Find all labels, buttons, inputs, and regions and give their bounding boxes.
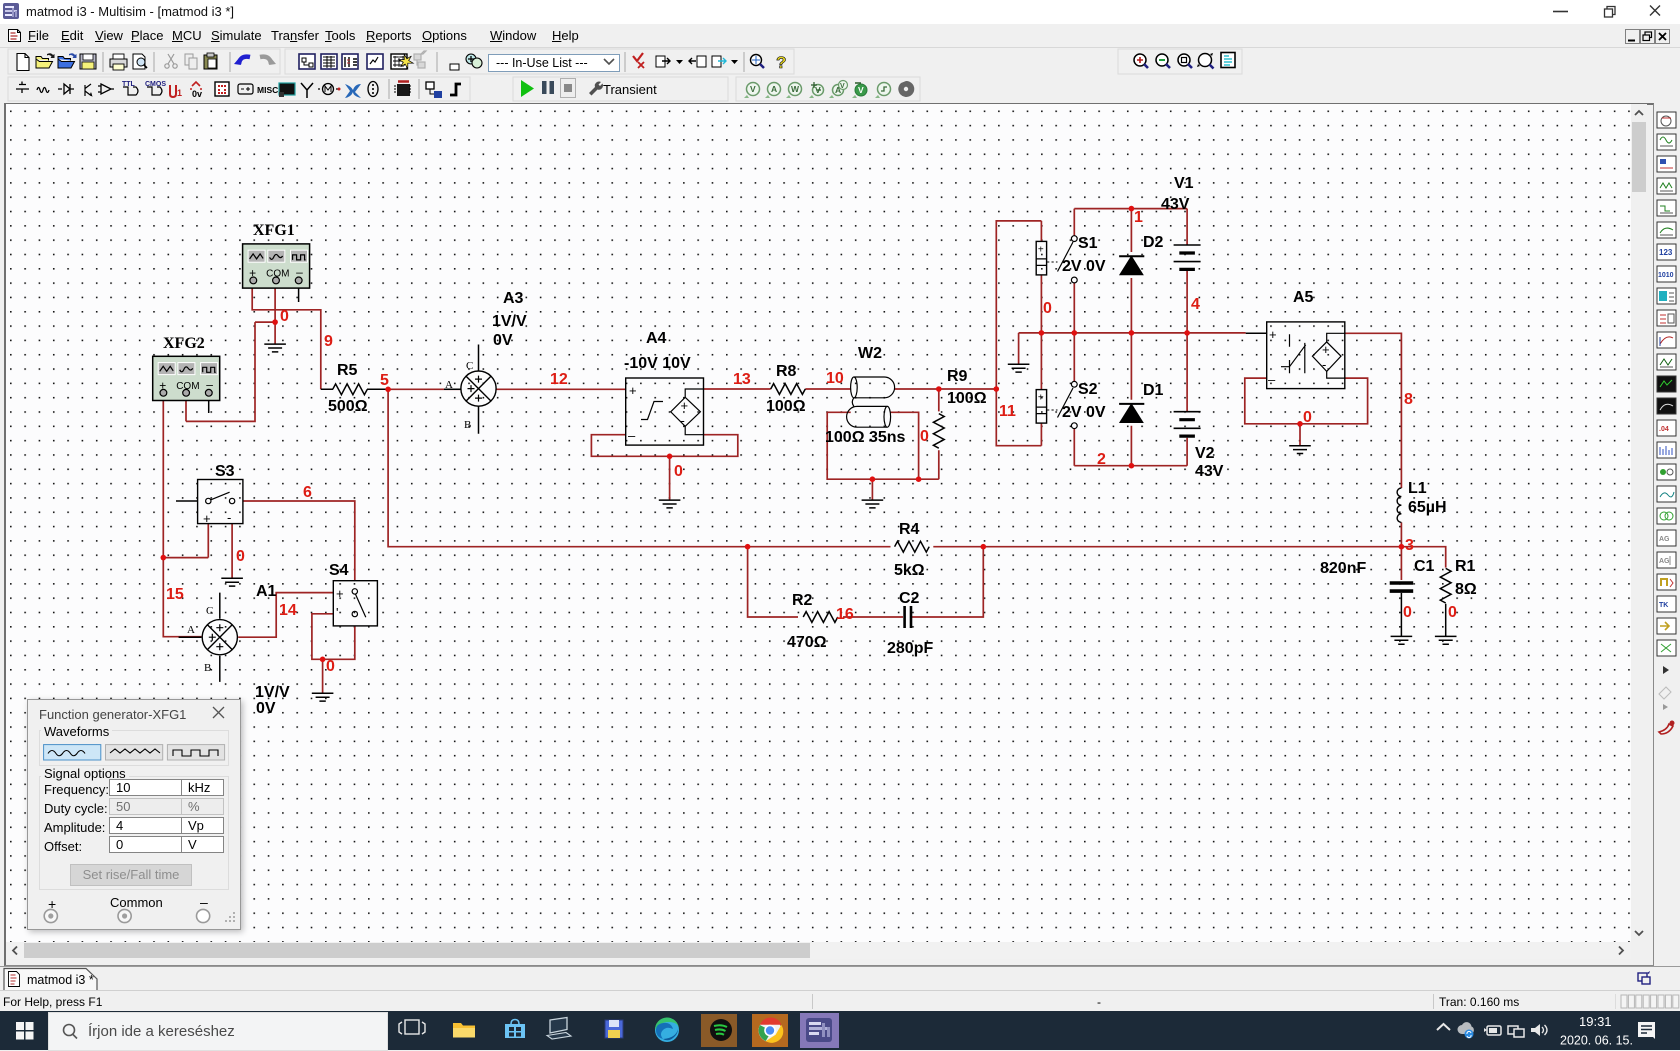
place source — [16, 82, 29, 94]
svg-text:W: W — [791, 84, 800, 94]
svg-text:4: 4 — [1191, 296, 1200, 313]
svg-text:R8: R8 — [776, 363, 797, 380]
wire A3 out to A4 in — [496, 388, 626, 390]
floppy save icon — [605, 1020, 623, 1038]
wire S3 net6 to S4 — [243, 501, 355, 581]
svg-text:43V: 43V — [1195, 463, 1224, 480]
svg-text:V1: V1 — [1174, 175, 1194, 192]
svg-text:B: B — [204, 662, 211, 674]
svg-text:V: V — [858, 85, 864, 95]
wire W2 to R9 node10 — [895, 388, 997, 390]
wire A1 out to S4 — [238, 593, 333, 638]
connector — [368, 82, 378, 97]
wire D2 — [1130, 209, 1132, 333]
wire node5 down and along bottom to R4 C1 R1 — [388, 389, 1446, 567]
svg-text:-: - — [681, 413, 685, 428]
wire node2 horizontal — [1074, 465, 1187, 467]
svg-text:0V: 0V — [493, 332, 513, 349]
junction S4 ground node — [320, 657, 326, 663]
svg-text:R5: R5 — [337, 362, 358, 379]
svg-text:AG: AG — [1659, 536, 1670, 543]
W2 symbol — [851, 377, 858, 398]
junction S1 coil / node 0 — [1039, 330, 1045, 336]
XFG2 minus stub — [208, 401, 210, 413]
wire node1 horizontal — [1074, 208, 1187, 210]
ground (C1 node 0) — [1391, 636, 1413, 644]
wire V1 — [1186, 209, 1188, 333]
svg-text:–: – — [628, 428, 636, 443]
svg-text:9: 9 — [324, 333, 333, 350]
junction node 15 — [161, 555, 167, 561]
svg-text:2V 0V: 2V 0V — [1062, 404, 1106, 421]
C1 bottom lead — [1400, 593, 1402, 637]
svg-text:470Ω: 470Ω — [787, 634, 827, 651]
motor — [318, 84, 338, 95]
svg-text:XFG2: XFG2 — [163, 335, 205, 352]
multiplier A1 — [202, 620, 237, 655]
wrench + Transient — [589, 82, 603, 96]
svg-text:+: + — [681, 398, 689, 413]
svg-text:W2: W2 — [858, 345, 882, 362]
wire XFG1 com gnd stub — [274, 322, 276, 344]
wire node15 to S3 plus — [163, 524, 208, 558]
svg-text:1V/V: 1V/V — [492, 313, 527, 330]
svg-text:5kΩ: 5kΩ — [894, 562, 925, 579]
junction S1/S2 switch — [1072, 330, 1078, 336]
probes — [744, 81, 914, 99]
svg-text:0V: 0V — [256, 700, 276, 717]
junction node 5 — [385, 387, 391, 393]
svg-text:3: 3 — [1405, 537, 1414, 554]
svg-text:0: 0 — [236, 548, 245, 565]
svg-text:16: 16 — [836, 606, 854, 623]
XFG1 minus stub — [298, 288, 300, 302]
svg-text:?: ? — [776, 53, 786, 72]
svg-text:1V/V: 1V/V — [255, 684, 290, 701]
svg-text:S1: S1 — [1078, 235, 1098, 252]
junction node 10/R9 — [936, 386, 942, 392]
svg-text:+: + — [1269, 327, 1277, 342]
open blue — [58, 53, 77, 68]
ground (R1 node 0) — [1435, 636, 1457, 644]
svg-text:0: 0 — [1043, 300, 1052, 317]
junction node 4 / V1 V2 — [1184, 330, 1190, 336]
svg-text:+: + — [1322, 342, 1330, 357]
R1 bottom lead — [1445, 604, 1447, 637]
svg-text:C: C — [466, 360, 473, 372]
D2 — [1119, 255, 1144, 257]
svg-text:15: 15 — [166, 586, 184, 603]
misc digital red — [170, 85, 176, 97]
battery V1 — [1174, 245, 1201, 269]
wire W2 bottom left loop — [827, 412, 939, 479]
wire S3 minus gnd stub — [231, 524, 233, 579]
wire D1 — [1130, 333, 1132, 466]
wire C1 top lead — [1400, 547, 1402, 580]
junction A5 feedback ground — [1297, 421, 1303, 427]
svg-text:2V 0V: 2V 0V — [1062, 258, 1106, 275]
zoom section — [1134, 53, 1235, 69]
svg-text:1: 1 — [1134, 209, 1143, 226]
preview — [133, 54, 147, 69]
ground (S4 node 0) — [312, 693, 334, 701]
junction R4/R2 left — [745, 544, 751, 550]
svg-text:8: 8 — [1404, 391, 1413, 408]
svg-text:19:31: 19:31 — [1579, 1014, 1612, 1029]
svg-text:100Ω: 100Ω — [947, 390, 987, 407]
sim buttons — [521, 80, 534, 97]
C2 bars — [905, 606, 911, 628]
svg-text:65µH: 65µH — [1408, 499, 1447, 516]
svg-text:0: 0 — [280, 308, 289, 325]
svg-text:5: 5 — [380, 372, 389, 389]
svg-text:C2: C2 — [899, 590, 920, 607]
ground (A5 node 0) — [1289, 446, 1311, 454]
hier — [426, 82, 442, 98]
wire S4 gnd stub — [322, 659, 324, 693]
wire R2 C2 branch — [748, 547, 984, 617]
store — [505, 1020, 525, 1039]
In-Use List combo — [489, 55, 620, 72]
svg-text:100Ω 35ns: 100Ω 35ns — [825, 429, 906, 446]
battery V2 — [1174, 412, 1201, 436]
svg-text:0v: 0v — [192, 89, 202, 99]
A5 box — [1267, 322, 1345, 389]
svg-text:–: – — [1268, 372, 1276, 387]
undo redo — [239, 57, 250, 64]
wire A5 gnd stub — [1299, 424, 1301, 446]
RF Y — [301, 83, 313, 98]
wire V2 — [1186, 333, 1188, 466]
svg-text:-: - — [1322, 357, 1326, 372]
S3 left pin — [176, 500, 198, 502]
svg-text:Írjon ide a kereséshez: Írjon ide a kereséshez — [88, 1023, 235, 1040]
ground (S3 minus) — [221, 578, 243, 586]
wire A4 feedback loop — [591, 435, 737, 457]
svg-text:S3: S3 — [215, 463, 235, 480]
switch coil S1 — [1036, 241, 1046, 275]
svg-text:11: 11 — [999, 403, 1016, 420]
svg-text:C1: C1 — [1414, 558, 1435, 575]
resistor R4 — [895, 541, 930, 552]
diode — [58, 84, 74, 94]
start — [16, 1022, 34, 1040]
task view — [399, 1020, 425, 1034]
design toolbox icons — [299, 54, 383, 69]
NI bird — [345, 84, 361, 98]
svg-text:Transient: Transient — [603, 82, 657, 97]
junction node 0 (XFG1 COM) — [272, 319, 278, 325]
S3 box — [198, 480, 243, 524]
cut copy paste (grayed) — [165, 54, 177, 68]
wire A5 feedback loop — [1245, 378, 1368, 424]
svg-text:--- In-Use List ---: --- In-Use List --- — [496, 56, 588, 70]
svg-text:-: - — [227, 510, 231, 525]
junction node 2 — [1129, 463, 1135, 469]
svg-text:0: 0 — [920, 428, 929, 445]
svg-text:0: 0 — [1448, 604, 1457, 621]
wire S2 coil leads — [1040, 333, 1042, 446]
svg-text:123: 123 — [1659, 248, 1673, 257]
wire XFG1 plus to R5 — [252, 288, 321, 389]
A3 leads — [444, 345, 479, 434]
wire XFG2 plus down to node 15 — [162, 401, 164, 558]
junction node 1 — [1129, 206, 1135, 212]
svg-text:A4: A4 — [646, 330, 667, 347]
background + dot grid — [6, 104, 1631, 942]
wire S1 coil top/bottom — [1040, 221, 1042, 333]
junction W2 bottom right — [916, 476, 922, 482]
svg-text:6: 6 — [303, 484, 312, 501]
laptop — [547, 1018, 571, 1040]
transistor — [85, 84, 92, 96]
ground (S1/S2 node 0) — [1008, 364, 1030, 372]
resistor R2 — [803, 612, 838, 623]
svg-text:500Ω: 500Ω — [328, 398, 368, 415]
spotify tile — [701, 1014, 737, 1047]
svg-text:TK: TK — [1659, 602, 1668, 609]
multisim tile (active) — [800, 1013, 839, 1048]
function generator XFG2 — [153, 356, 220, 400]
svg-text:8Ω: 8Ω — [1455, 581, 1477, 598]
wire S2 switch — [1073, 333, 1075, 466]
ground (W2 node 0) — [862, 500, 884, 508]
D1 — [1119, 403, 1144, 405]
MCU — [394, 81, 411, 96]
svg-text:1010: 1010 — [1658, 272, 1674, 279]
wire node0 to XFG2 COM — [186, 322, 255, 421]
wire W2 gnd stub — [871, 479, 873, 500]
ground (XFG1 COM node 0) — [264, 344, 286, 352]
svg-text:A1: A1 — [256, 583, 277, 600]
C1 bars — [1390, 583, 1414, 591]
electromech (black screen) — [279, 83, 295, 95]
wire S4 lower left to gnd — [312, 614, 355, 660]
svg-text:S4: S4 — [329, 562, 349, 579]
svg-text:820nF: 820nF — [1320, 560, 1366, 577]
svg-text:A: A — [187, 624, 195, 636]
svg-text:A3: A3 — [503, 290, 524, 307]
S2 switch — [1071, 381, 1077, 387]
function generator XFG1 — [243, 244, 310, 288]
mixed — [190, 82, 202, 89]
save — [80, 54, 96, 69]
switch coil S2 — [1036, 390, 1046, 424]
bus — [450, 84, 461, 95]
svg-text:R9: R9 — [947, 368, 968, 385]
search icon + text — [64, 1025, 75, 1036]
print — [110, 54, 127, 70]
svg-text:.04: .04 — [1659, 426, 1669, 433]
wire main mid horizontal — [1019, 332, 1246, 334]
wire A4 out to R8 — [704, 388, 771, 390]
resistor R8 — [771, 384, 806, 395]
S1 switch — [1071, 236, 1077, 242]
wire node15 to A1 input A — [163, 558, 201, 637]
S4 box — [333, 581, 377, 626]
junction node 3 — [1399, 544, 1405, 550]
svg-text:V2: V2 — [1195, 445, 1215, 462]
wire A5 out to L1 — [1345, 333, 1402, 488]
svg-text:A: A — [771, 84, 777, 94]
svg-text:2020. 06. 15.: 2020. 06. 15. — [1560, 1034, 1633, 1048]
svg-text:S2: S2 — [1078, 381, 1098, 398]
svg-text:+: + — [629, 383, 637, 398]
analog — [98, 84, 114, 94]
svg-text:2: 2 — [1097, 451, 1106, 468]
A1 leads — [179, 593, 220, 682]
multiplier A3 — [461, 371, 496, 406]
L1 coil — [1397, 488, 1401, 522]
edge — [655, 1017, 679, 1042]
svg-text:43V: 43V — [1161, 196, 1190, 213]
folder — [453, 1023, 475, 1038]
wire S1 switch verticals — [1073, 209, 1075, 333]
R5 leads — [321, 388, 388, 390]
svg-text:0: 0 — [1403, 604, 1412, 621]
resistor R1 — [1440, 568, 1451, 603]
wire W2 bottom right — [891, 412, 919, 479]
svg-text:AG: AG — [1659, 558, 1670, 565]
find / help — [751, 55, 765, 69]
wire R9 leads — [938, 389, 940, 479]
svg-text:XFG1: XFG1 — [253, 222, 295, 239]
svg-text:V: V — [750, 84, 756, 94]
resistor R9 — [933, 414, 944, 449]
svg-text:matmod i3 *: matmod i3 * — [27, 973, 94, 987]
svg-text:R2: R2 — [792, 592, 813, 609]
ERC / capture — [633, 53, 644, 68]
ground (A4 node 0) — [659, 500, 681, 508]
junction D2/D1 — [1129, 330, 1135, 336]
A4 box — [626, 378, 704, 445]
black component symbols and leads — [176, 236, 1446, 682]
svg-text:0: 0 — [674, 463, 683, 480]
svg-text:0: 0 — [326, 658, 335, 675]
svg-text:12: 12 — [550, 371, 568, 388]
svg-text:': ' — [336, 605, 338, 620]
svg-text:C: C — [206, 605, 213, 617]
svg-text:1: 1 — [177, 88, 182, 98]
new — [17, 54, 29, 71]
wire S1coil gnd stub — [1018, 333, 1020, 364]
svg-text:A5: A5 — [1293, 289, 1314, 306]
wire left vertical node11 — [996, 221, 1041, 446]
svg-text:100Ω: 100Ω — [766, 398, 806, 415]
wire R8 to W2 — [805, 388, 850, 390]
svg-text:V: V — [840, 83, 845, 90]
power comp — [238, 84, 253, 94]
svg-text:L1: L1 — [1408, 480, 1427, 497]
A5 input lead — [1246, 332, 1267, 334]
svg-text:14: 14 — [279, 602, 297, 619]
create component / db — [399, 54, 459, 70]
svg-text:-10V 10V: -10V 10V — [624, 355, 691, 372]
tray — [1437, 1024, 1450, 1030]
wire L1 to node3 — [1400, 522, 1402, 546]
junction W2 ground node — [870, 476, 876, 482]
svg-text:280pF: 280pF — [887, 640, 933, 657]
resistor R5 — [333, 384, 368, 395]
svg-text:R4: R4 — [899, 521, 920, 538]
wire A4 gnd stub — [669, 456, 671, 500]
open — [36, 53, 55, 68]
place basic (squiggle) — [37, 88, 49, 93]
svg-text:R1: R1 — [1455, 558, 1476, 575]
junction A4 feedback ground — [667, 454, 673, 460]
wire node5 R5 to A3 — [388, 388, 461, 390]
svg-text:+: + — [203, 511, 211, 526]
svg-text:D2: D2 — [1143, 234, 1164, 251]
svg-text:10: 10 — [826, 370, 844, 387]
wire XFG1 COM to node 0 — [255, 288, 275, 322]
junction node 11 — [994, 386, 1000, 392]
svg-text:A: A — [445, 379, 453, 391]
svg-text:0: 0 — [1303, 409, 1312, 426]
svg-text:B: B — [464, 419, 471, 431]
svg-text:MISC: MISC — [257, 85, 278, 95]
svg-text:D1: D1 — [1143, 382, 1164, 399]
svg-text:13: 13 — [733, 371, 751, 388]
junction R4/C2 right — [981, 544, 987, 550]
chrome tile — [752, 1014, 788, 1047]
svg-text:+: + — [336, 586, 344, 601]
indicator — [215, 82, 229, 96]
